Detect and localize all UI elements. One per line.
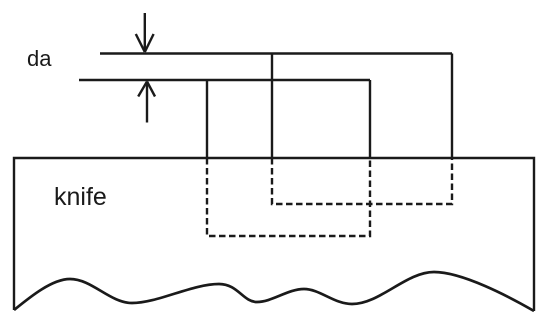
dashed slot shallow (right) [272, 158, 452, 204]
knife body outline [14, 158, 534, 311]
wire vertical at x=272 [271, 54, 273, 159]
label da [27, 46, 51, 72]
label knife [54, 183, 107, 212]
dashed slot deep (left) [207, 158, 370, 236]
knife wavy bottom edge [14, 272, 534, 311]
wire vertical at x=370 [369, 80, 371, 158]
up arrow (dimension da) [138, 82, 155, 123]
wire vertical at x=452 [451, 54, 453, 159]
down arrow (dimension da) [136, 13, 154, 52]
wire vertical at x=207 [206, 80, 208, 158]
wire top horizontal line [100, 52, 452, 54]
wire second horizontal line [79, 79, 370, 81]
